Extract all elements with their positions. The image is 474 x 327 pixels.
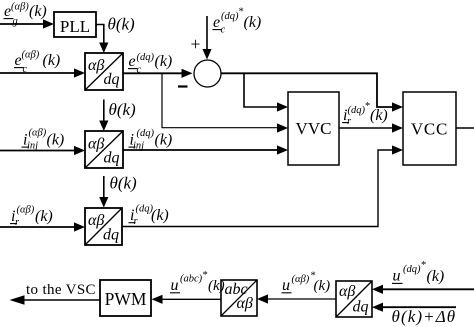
svg-text:(αβ): (αβ) (292, 274, 310, 285)
svg-text:e: e (129, 53, 136, 70)
svg-text:(k): (k) (43, 52, 61, 69)
svg-text:g: g (13, 16, 18, 27)
wire VCC output (456, 127, 474, 129)
label e_g^(ab)(k) (4, 2, 47, 28)
svg-text:(dq): (dq) (221, 11, 239, 22)
wire T3 output up to VCC input 3 (122, 145, 403, 226)
block PLL (54, 12, 96, 37)
svg-text:(k): (k) (35, 208, 53, 225)
svg-text:θ(k): θ(k) (108, 15, 136, 34)
svg-text:PWM: PWM (105, 289, 147, 309)
svg-text:(k): (k) (427, 268, 445, 285)
svg-text:αβ: αβ (88, 212, 104, 229)
label e_c^(dq)(k) (128, 52, 172, 76)
svg-text:(αβ): (αβ) (17, 205, 35, 216)
transform block T4 dq to alpha-beta (336, 281, 372, 317)
svg-text:c: c (23, 64, 28, 75)
label u^(dq)*(k) (392, 260, 444, 285)
label i_r^(ab)(k) (10, 205, 53, 229)
wire T5 output to PWM (152, 295, 222, 304)
label u^(abc)*(k) (170, 270, 225, 294)
svg-text:(abc): (abc) (180, 274, 203, 285)
svg-text:(k): (k) (151, 207, 169, 224)
wire PWM output to the VSC (10, 295, 101, 305)
svg-text:αβ: αβ (339, 283, 355, 300)
label e_c^(ab)(k) (14, 50, 60, 76)
svg-text:to the VSC: to the VSC (26, 282, 96, 298)
svg-text:VVC: VVC (296, 119, 332, 138)
wire VVC output to VCC input 2 (339, 123, 403, 132)
svg-text:(dq): (dq) (403, 264, 421, 275)
label i_r^(dq)*(k) (342, 101, 388, 127)
wire e_c input to T1 (0, 68, 85, 77)
svg-text:dq: dq (104, 71, 120, 88)
wire summing output to VCC input 1 (221, 73, 403, 111)
wire i_r input to T3 (0, 222, 85, 231)
wire T4 output to T5 (257, 294, 336, 303)
label u^(ab)*(k) (282, 271, 331, 295)
wire u^(dq)* input to T4 (372, 285, 474, 294)
wire T1 output to summing junction (123, 69, 193, 78)
svg-text:inj: inj (133, 141, 144, 152)
svg-text:(k): (k) (314, 278, 331, 294)
wire PLL theta output (96, 25, 108, 54)
svg-text:dq: dq (104, 150, 120, 167)
wire T2 output to VVC input 3 (123, 145, 288, 154)
svg-text:θ(k): θ(k) (109, 100, 137, 119)
svg-text:u: u (171, 277, 179, 294)
svg-text:θ(k)+Δθ: θ(k)+Δθ (392, 307, 457, 326)
svg-text:αβ: αβ (237, 295, 253, 312)
svg-text:c: c (137, 65, 142, 76)
block PWM (100, 280, 151, 316)
svg-text:θ(k): θ(k) (110, 174, 138, 193)
minus sign at summing junction (178, 85, 188, 87)
label i_r^(dq)(k) (129, 204, 169, 228)
label i_inj^(ab)(k) (22, 128, 65, 152)
svg-text:(dq): (dq) (137, 128, 155, 139)
svg-text:(dq): (dq) (348, 105, 366, 116)
label e_c^(dq)*(k) reference (213, 7, 262, 36)
wire theta(k) into T2 (99, 100, 108, 132)
svg-text:αβ: αβ (88, 136, 104, 153)
svg-text:(k): (k) (29, 3, 47, 20)
svg-text:αβ: αβ (88, 57, 104, 74)
wire e_g input to PLL (0, 19, 54, 28)
svg-text:(αβ): (αβ) (11, 2, 29, 13)
svg-text:(k): (k) (47, 132, 65, 149)
block VVC (288, 92, 339, 165)
wire theta(k) into T3 (99, 176, 108, 208)
svg-text:PLL: PLL (60, 17, 90, 36)
transform block T3 alpha-beta to dq (85, 208, 122, 245)
svg-text:dq: dq (103, 227, 119, 244)
svg-text:(k): (k) (155, 132, 173, 149)
svg-text:(k): (k) (155, 53, 173, 70)
svg-text:+: + (191, 34, 201, 54)
svg-text:inj: inj (27, 141, 38, 152)
wire branch e_c^(dq) to VVC input 2 (162, 73, 278, 127)
block VCC (403, 92, 456, 165)
label i_inj^(dq)(k) (129, 128, 173, 152)
svg-text:u: u (393, 268, 401, 285)
svg-text:(k): (k) (244, 14, 262, 31)
svg-text:(αβ): (αβ) (22, 50, 40, 61)
summing junction circle (194, 60, 221, 87)
wire branch to VVC input 1 (244, 73, 288, 111)
svg-text:(k): (k) (208, 278, 225, 294)
transform block T2 alpha-beta to dq (85, 131, 123, 168)
svg-text:u: u (282, 277, 290, 294)
svg-text:VCC: VCC (411, 120, 448, 139)
transform block T5 abc to alpha-beta (221, 280, 257, 316)
svg-text:dq: dq (353, 299, 369, 316)
wire i_inj input to T2 (0, 146, 85, 155)
svg-text:(dq): (dq) (137, 52, 155, 63)
svg-text:e: e (213, 14, 220, 31)
svg-text:(αβ): (αβ) (29, 128, 47, 139)
svg-text:c: c (221, 25, 226, 36)
transform block T1 alpha-beta to dq (85, 53, 123, 90)
wire reference e_c^(dq)* into summing junction (202, 16, 211, 60)
wire theta(k)+delta-theta input to T4 (372, 303, 456, 312)
svg-text:(k): (k) (370, 107, 388, 124)
